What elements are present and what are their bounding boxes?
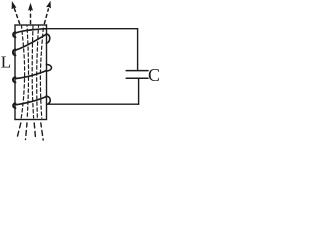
- winding turn 4 front strand: [15, 97, 46, 105]
- wire top (coil to capacitor): [46, 28, 137, 30]
- arrowhead top-middle: [28, 3, 33, 11]
- winding turn 2 left bump: [13, 49, 15, 55]
- winding turn 1 left bump: [13, 32, 15, 37]
- field line arrow shaft top-right: [44, 9, 48, 24]
- inductor L coil core rectangle: [15, 25, 47, 120]
- svg-text:L: L: [1, 53, 11, 72]
- field line 2 (inside coil): [27, 26, 29, 118]
- field line tail bottom 1: [17, 123, 21, 139]
- field line 1 (left, inside coil): [21, 26, 24, 118]
- wire right upper: [137, 29, 139, 70]
- capacitor C top plate: [126, 70, 148, 72]
- winding turn 2 front strand: [15, 34, 46, 50]
- field line 5 (right, inside coil): [40, 26, 43, 118]
- field line tail bottom 4: [41, 123, 43, 140]
- field line 3 (center, inside coil): [32, 26, 33, 118]
- wire bottom (capacitor to coil): [48, 103, 139, 105]
- wire right lower: [138, 78, 140, 104]
- winding turn 1 front strand: [15, 29, 46, 34]
- field line 4 (inside coil): [37, 26, 39, 118]
- field line arrow shaft top-left: [14, 8, 19, 24]
- winding turn 3 front strand: [15, 71, 46, 79]
- winding turn 2 right arc: [46, 34, 49, 44]
- arrowhead top-left: [12, 1, 17, 9]
- winding turn 3 left bump: [13, 77, 15, 82]
- capacitor C bottom plate: [126, 77, 148, 79]
- svg-text:C: C: [148, 65, 160, 85]
- winding turn 4 right arc joining bottom wire: [46, 96, 50, 104]
- field line tail bottom 2: [26, 123, 28, 140]
- winding turn 3 right arc: [46, 64, 51, 71]
- field line arrow shaft top-middle: [30, 9, 32, 24]
- field line tail bottom 3: [34, 123, 35, 139]
- arrowhead top-right: [46, 1, 51, 9]
- winding turn 4 left bump: [13, 103, 15, 108]
